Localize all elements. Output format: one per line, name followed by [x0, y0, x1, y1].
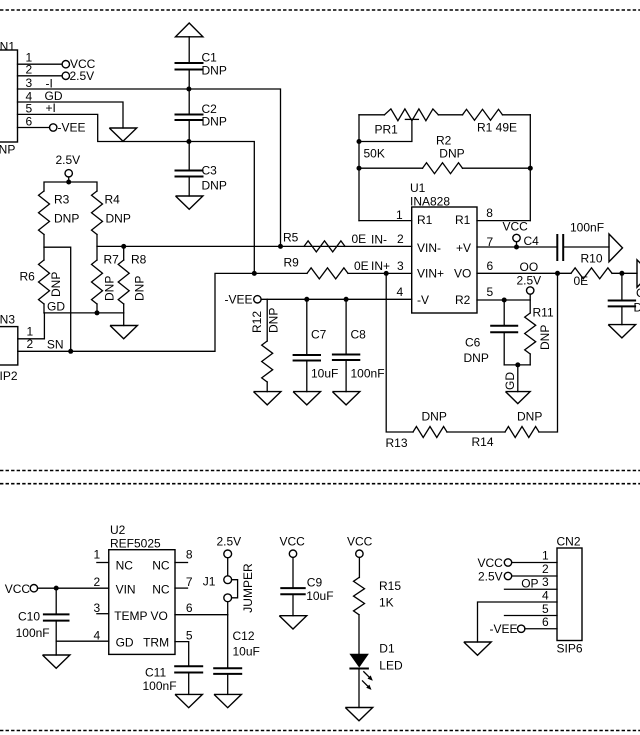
svg-text:R10: R10 — [581, 252, 603, 266]
pin 7 U2 — [175, 575, 193, 589]
capacitor C9 — [280, 576, 333, 616]
svg-text:5: 5 — [186, 629, 193, 643]
ground (C6/R11) — [506, 392, 531, 404]
svg-text:CN3: CN3 — [0, 313, 15, 327]
node 2.5V junction — [66, 180, 71, 185]
resistor R11 — [525, 306, 554, 365]
node C2/C3 junction — [186, 139, 191, 144]
svg-text:2.5V: 2.5V — [56, 153, 81, 167]
pin 6 CN1 — [18, 115, 50, 129]
ground (C10) — [43, 655, 70, 668]
svg-text:R14: R14 — [472, 435, 494, 449]
svg-text:JUMPER: JUMPER — [241, 563, 255, 613]
svg-text:1: 1 — [94, 548, 101, 562]
svg-text:2.5V: 2.5V — [70, 69, 95, 83]
svg-text:DNP: DNP — [267, 308, 281, 333]
resistor R6 — [20, 247, 64, 313]
svg-text:2.5V: 2.5V — [217, 535, 242, 549]
node C8 tap — [344, 297, 349, 302]
gain network right rail — [529, 115, 531, 221]
svg-text:R11: R11 — [533, 306, 554, 320]
svg-text:50K: 50K — [364, 147, 385, 161]
terminal VCC (CN2) — [478, 556, 512, 570]
svg-text:2.5V: 2.5V — [517, 274, 542, 288]
svg-text:5: 5 — [26, 102, 33, 116]
potentiometer PR1 — [359, 109, 438, 161]
pin 2 U2 — [38, 575, 109, 589]
node C6 tap — [502, 298, 507, 303]
svg-text:100nF: 100nF — [351, 367, 385, 381]
svg-text:2.5V: 2.5V — [478, 570, 503, 584]
wire feedback to VO — [539, 273, 558, 432]
svg-text:R1: R1 — [455, 213, 471, 227]
pin 5 U2 — [175, 629, 193, 667]
svg-text:C10: C10 — [18, 610, 40, 624]
resistor R4 — [92, 191, 131, 235]
terminal 2.5V — [62, 69, 94, 83]
svg-text:0E: 0E — [354, 259, 369, 273]
ground (C3) — [176, 196, 203, 209]
pin 2 CN1 — [18, 63, 63, 77]
pin 2 CN3 / wire SN net — [18, 273, 307, 351]
svg-text:1K: 1K — [379, 596, 394, 610]
svg-text:R8: R8 — [131, 253, 147, 267]
svg-text:REF5025: REF5025 — [110, 537, 161, 551]
resistor R12 — [250, 299, 281, 391]
capacitor C8 — [332, 299, 385, 391]
svg-text:CN2: CN2 — [557, 535, 581, 549]
svg-text:DNP: DNP — [422, 410, 447, 424]
svg-text:R5: R5 — [283, 231, 299, 245]
svg-text:OO: OO — [520, 260, 539, 274]
svg-text:R6: R6 — [20, 270, 36, 284]
resistor R1 49E — [438, 109, 530, 134]
svg-text:C1: C1 — [202, 51, 218, 65]
connector CN2 — [557, 535, 583, 656]
capacitor C7 — [293, 299, 339, 391]
ground (R12) — [254, 392, 281, 405]
svg-text:GD: GD — [116, 636, 134, 650]
wire 2.5V rail — [44, 182, 97, 191]
svg-text:TEMP: TEMP — [114, 609, 147, 623]
svg-text:C11: C11 — [145, 666, 166, 680]
svg-text:10uF: 10uF — [311, 367, 338, 381]
ground (C5) — [608, 325, 635, 338]
svg-text:VIN: VIN — [116, 582, 136, 596]
ground (C9) — [279, 616, 306, 629]
svg-text:7: 7 — [186, 575, 193, 589]
wire C6/R11 bottom — [504, 364, 530, 366]
svg-text:C6: C6 — [465, 336, 481, 350]
svg-text:DNP: DNP — [54, 212, 79, 226]
capacitor C2 — [175, 89, 227, 142]
svg-text:0E: 0E — [574, 274, 589, 288]
svg-text:3: 3 — [26, 76, 33, 90]
svg-text:3: 3 — [542, 575, 549, 589]
svg-text:R9: R9 — [284, 256, 300, 270]
wire GD drop — [517, 365, 519, 392]
svg-text:DNP: DNP — [634, 301, 640, 315]
potentiometer PR1 wiper — [359, 119, 418, 141]
pin 5 CN2 — [505, 602, 558, 616]
pin 7 U1 — [477, 235, 557, 249]
resistor R14 — [472, 410, 543, 450]
svg-text:DNP: DNP — [202, 179, 227, 193]
node R2 left — [357, 166, 362, 171]
svg-text:R1 49E: R1 49E — [477, 121, 517, 135]
svg-text:U1: U1 — [410, 181, 426, 195]
resistor R10 — [571, 252, 637, 289]
node PR1 wiper tap — [357, 139, 362, 144]
svg-text:VCC: VCC — [280, 535, 306, 549]
svg-text:DNP: DNP — [106, 212, 131, 226]
svg-text:3: 3 — [94, 601, 101, 615]
power arrow above C1 — [176, 23, 203, 63]
svg-text:10uF: 10uF — [306, 589, 333, 603]
svg-text:C5: C5 — [636, 286, 640, 300]
resistor R7 — [92, 246, 120, 313]
svg-text:100nF: 100nF — [16, 626, 50, 640]
pin 4 CN2 — [478, 589, 558, 643]
svg-text:LED: LED — [379, 659, 403, 673]
svg-text:2: 2 — [542, 562, 549, 576]
svg-text:2: 2 — [397, 232, 404, 246]
resistor R13 — [386, 410, 448, 451]
svg-text:VO: VO — [454, 267, 471, 281]
svg-text:6: 6 — [487, 259, 494, 273]
svg-text:IN+: IN+ — [371, 259, 390, 273]
node R8 top — [121, 244, 126, 249]
svg-text:SN: SN — [47, 338, 64, 352]
capacitor C4 — [524, 221, 610, 262]
node SN tap — [68, 349, 73, 354]
pin 1 CN3 — [18, 313, 45, 339]
svg-text:R12: R12 — [250, 311, 264, 333]
capacitor C11 — [143, 666, 204, 695]
svg-text:R7: R7 — [104, 253, 120, 267]
IC U2 REF5025 — [109, 523, 175, 654]
pin 8 U1 — [477, 206, 530, 220]
node feedback tap — [384, 271, 389, 276]
sheet border dashed middle upper — [0, 470, 640, 472]
ground (C7) — [293, 392, 320, 405]
svg-text:GD: GD — [503, 372, 517, 390]
sheet border dashed top — [0, 9, 640, 11]
gain network left rail — [358, 115, 360, 221]
svg-text:U2: U2 — [110, 523, 126, 537]
svg-text:DNP: DNP — [133, 276, 147, 301]
pin 8 U2 — [175, 548, 193, 563]
svg-text:GD: GD — [47, 300, 65, 314]
wire +I net — [18, 114, 255, 273]
node GD tap — [515, 362, 520, 367]
pin 1 CN1 — [18, 51, 63, 65]
svg-text:R3: R3 — [54, 193, 70, 207]
terminal VCC — [62, 57, 96, 71]
pin 4 U2 — [56, 629, 109, 643]
pin 5 U1 — [477, 285, 530, 300]
resistor R3 — [39, 191, 80, 235]
resistor R2 — [359, 134, 530, 174]
node R2 right — [528, 166, 533, 171]
jumper J1 — [203, 563, 255, 615]
svg-text:1: 1 — [396, 208, 403, 222]
node VO feedback tap — [555, 271, 560, 276]
svg-text:VO: VO — [151, 609, 168, 623]
wire GD rail — [44, 312, 124, 314]
pin 6 CN2 — [525, 615, 557, 629]
pin 6 U1 — [477, 259, 571, 273]
wire D1 to ground — [358, 669, 360, 708]
node C7 tap — [304, 297, 309, 302]
pin 3 CN2 / label OP — [505, 575, 558, 590]
svg-text:DNP: DNP — [103, 276, 117, 301]
svg-text:R1: R1 — [417, 213, 433, 227]
terminal 2.5V (CN2) — [478, 570, 512, 584]
svg-text:VCC: VCC — [347, 535, 373, 549]
sheet border dashed bottom — [0, 730, 640, 732]
svg-text:C4: C4 — [524, 234, 540, 248]
svg-text:R2: R2 — [455, 293, 471, 307]
svg-text:2: 2 — [26, 63, 33, 77]
svg-text:NC: NC — [152, 582, 170, 596]
node -I to IN- junction — [278, 244, 283, 249]
svg-text:4: 4 — [542, 589, 549, 603]
pin 1 U1 — [359, 208, 412, 222]
terminal VCC (C9) — [280, 535, 306, 589]
pin 6 U2 — [175, 601, 228, 615]
pin 3 U2 — [94, 601, 109, 615]
node +I to IN+ junction — [252, 271, 257, 276]
svg-text:-V: -V — [417, 293, 429, 307]
svg-text:4: 4 — [94, 629, 101, 643]
resistor R5 — [283, 231, 366, 252]
svg-text:2: 2 — [94, 575, 101, 589]
op-amp U1 INA828 — [410, 181, 477, 313]
svg-text:NC: NC — [116, 558, 134, 572]
svg-text:1: 1 — [542, 549, 549, 563]
svg-text:8: 8 — [486, 206, 493, 220]
svg-text:-VEE: -VEE — [58, 121, 86, 135]
svg-text:-VEE: -VEE — [225, 293, 253, 307]
node R10 out / C5 tap — [619, 271, 624, 276]
svg-text:TRM: TRM — [143, 636, 169, 650]
pin 5 CN1 — [26, 101, 56, 116]
svg-text:10uF: 10uF — [233, 645, 260, 659]
terminal -VEE (CN2) — [490, 622, 525, 636]
svg-text:6: 6 — [542, 615, 549, 629]
svg-text:DNP: DNP — [202, 64, 227, 78]
wire GD from pin4 — [18, 102, 124, 128]
off-page arrow (VO out, clipped) — [637, 260, 640, 288]
terminal 2.5V (R11) — [517, 274, 542, 314]
svg-text:VIN-: VIN- — [417, 241, 441, 255]
svg-text:8: 8 — [186, 548, 193, 562]
terminal VCC (R15) — [347, 535, 373, 578]
svg-text:5: 5 — [542, 602, 549, 616]
pin 4 CN1 — [26, 89, 63, 104]
svg-text:DNP: DNP — [49, 272, 63, 297]
svg-text:DNP: DNP — [538, 325, 552, 350]
ground (CN1 pin4) — [109, 128, 136, 141]
terminal -VEE (CN1) — [50, 121, 86, 135]
ground (C11) — [175, 694, 202, 707]
svg-text:IN-: IN- — [371, 233, 387, 247]
svg-text:NC: NC — [152, 558, 170, 572]
wire -I net — [18, 89, 281, 246]
svg-text:C12: C12 — [233, 629, 255, 643]
terminal -VEE rail — [225, 293, 412, 307]
ground (C12) — [214, 694, 241, 707]
svg-text:SIP6: SIP6 — [557, 642, 583, 656]
LED light arrows — [363, 672, 373, 690]
connector CN3 — [0, 313, 18, 384]
svg-text:CN1: CN1 — [0, 40, 15, 54]
svg-text:4: 4 — [397, 285, 404, 299]
ground (D1) — [345, 708, 372, 721]
off-page arrow (C4 out) — [609, 234, 623, 262]
svg-text:R4: R4 — [105, 193, 121, 207]
svg-text:C3: C3 — [202, 164, 218, 178]
pin 1 CN2 — [512, 549, 557, 563]
pin 2 CN2 — [512, 562, 557, 576]
terminal VCC (U1 +V) — [503, 220, 529, 247]
wire between R13 R14 — [447, 431, 505, 433]
capacitor C1 — [175, 51, 227, 90]
pin 3 CN1 — [26, 76, 53, 91]
wire R4 bottom / IN- rail — [97, 235, 412, 247]
node C10 tap — [54, 586, 59, 591]
svg-text:DNP: DNP — [202, 115, 227, 129]
diode D1 LED — [349, 642, 403, 673]
pin 1 U2 — [94, 548, 109, 563]
svg-text:PR1: PR1 — [375, 123, 399, 137]
svg-text:VCC: VCC — [5, 582, 31, 596]
svg-text:R2: R2 — [436, 134, 452, 148]
capacitor C6 — [464, 300, 519, 365]
svg-text:5: 5 — [487, 285, 494, 299]
svg-text:C8: C8 — [351, 328, 367, 342]
svg-text:INA828: INA828 — [410, 195, 450, 209]
svg-text:-VEE: -VEE — [490, 622, 518, 636]
svg-text:+V: +V — [456, 241, 471, 255]
svg-text:R15: R15 — [379, 579, 401, 593]
svg-text:DNP: DNP — [464, 351, 489, 365]
wire R3 bottom to SN — [44, 235, 71, 352]
capacitor C5 — [608, 273, 640, 324]
node C1/C2 junction — [186, 87, 191, 92]
svg-text:VCC: VCC — [478, 556, 504, 570]
node VCC junction — [514, 245, 519, 250]
svg-text:C9: C9 — [307, 576, 323, 590]
svg-text:OP: OP — [521, 577, 538, 591]
svg-text:6: 6 — [26, 115, 33, 129]
ground (C8) — [332, 392, 359, 405]
terminal 2.5V (J1) — [217, 535, 242, 576]
sheet border dashed middle lower — [0, 483, 640, 485]
svg-text:DNP: DNP — [0, 143, 15, 157]
resistor R8 — [118, 246, 146, 325]
capacitor C3 — [175, 142, 227, 197]
svg-text:J1: J1 — [203, 575, 216, 589]
svg-text:6: 6 — [186, 601, 193, 615]
capacitor C12 — [213, 615, 260, 695]
svg-text:100nF: 100nF — [570, 221, 604, 235]
svg-text:DNP: DNP — [517, 410, 542, 424]
terminal VCC (U2) — [5, 582, 38, 596]
capacitor C10 — [16, 588, 70, 655]
ground (R8) — [110, 326, 137, 339]
svg-text:VCC: VCC — [503, 220, 529, 234]
ground (CN2 pin4) — [464, 642, 491, 655]
svg-text:3: 3 — [397, 259, 404, 273]
node R7 bottom — [95, 310, 100, 315]
svg-text:R13: R13 — [386, 436, 408, 450]
svg-text:100nF: 100nF — [143, 679, 177, 693]
svg-text:SIP2: SIP2 — [0, 369, 18, 383]
resistor R9 — [284, 256, 412, 279]
svg-text:C7: C7 — [311, 328, 327, 342]
svg-text:2: 2 — [27, 337, 34, 351]
resistor R15 — [354, 578, 402, 654]
terminal 2.5V (R3/R4) — [56, 153, 81, 182]
svg-text:D1: D1 — [379, 642, 395, 656]
svg-text:VIN+: VIN+ — [417, 267, 444, 281]
wire feedback bottom — [386, 273, 413, 432]
svg-text:0E: 0E — [352, 232, 367, 246]
connector CN1 — [0, 40, 18, 157]
svg-text:+I: +I — [46, 101, 56, 115]
svg-text:DNP: DNP — [439, 147, 464, 161]
